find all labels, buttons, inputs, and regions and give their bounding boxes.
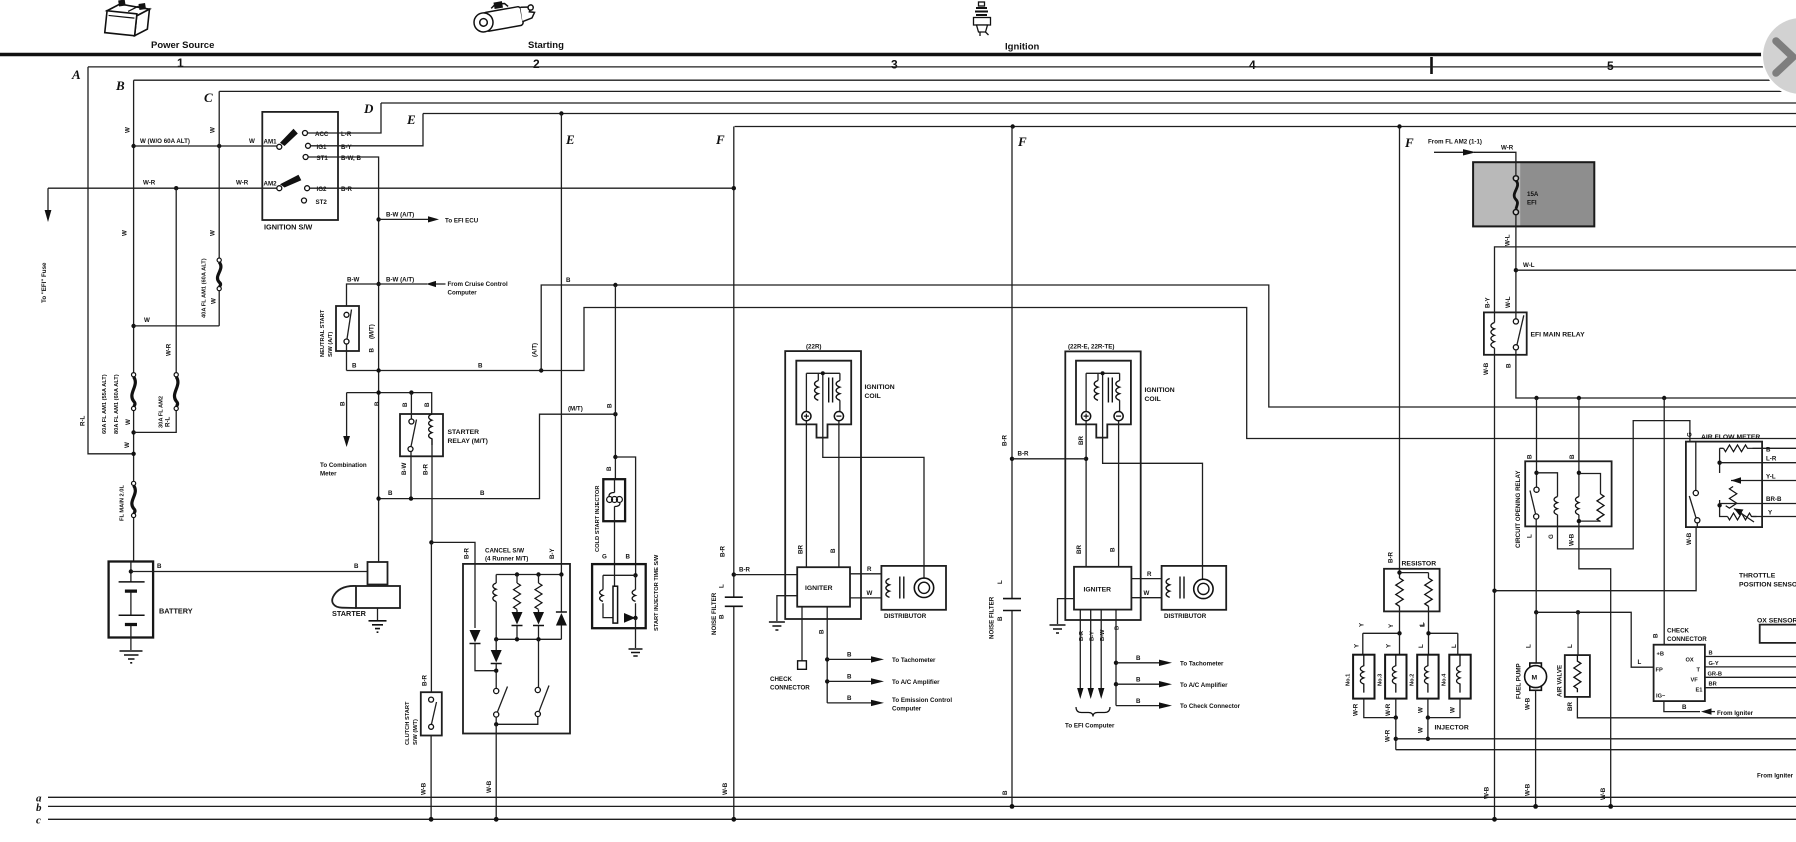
svg-text:R-L: R-L — [165, 416, 172, 427]
svg-text:5: 5 — [1607, 59, 1614, 73]
svg-text:D: D — [363, 101, 374, 116]
svg-text:L-R: L-R — [341, 131, 352, 138]
svg-text:(A/T): (A/T) — [532, 343, 539, 357]
svg-text:CHECK: CHECK — [770, 676, 793, 683]
svg-text:F: F — [1404, 135, 1414, 150]
svg-text:G: G — [1687, 432, 1694, 437]
svg-text:STARTER: STARTER — [332, 609, 367, 618]
svg-text:No.1: No.1 — [1346, 674, 1352, 686]
svg-text:W-B: W-B — [1686, 532, 1693, 545]
svg-text:IG−: IG− — [1656, 694, 1666, 700]
svg-text:BR: BR — [1567, 702, 1574, 711]
svg-text:To Emission Control: To Emission Control — [892, 697, 952, 704]
svg-text:NOISE FILTER: NOISE FILTER — [711, 592, 718, 635]
svg-text:W-R: W-R — [1501, 145, 1514, 152]
svg-text:B: B — [1110, 547, 1117, 552]
svg-text:From FL AM2 (1-1): From FL AM2 (1-1) — [1428, 139, 1482, 146]
svg-text:W: W — [125, 127, 132, 133]
svg-text:B-R: B-R — [739, 567, 751, 574]
svg-text:R-L: R-L — [80, 415, 87, 426]
svg-text:3: 3 — [891, 58, 898, 72]
svg-text:B-W: B-W — [401, 462, 408, 475]
svg-text:W-B: W-B — [421, 782, 428, 795]
svg-text:4: 4 — [1249, 58, 1256, 72]
svg-text:VF: VF — [1691, 678, 1699, 684]
svg-text:B: B — [607, 403, 614, 408]
svg-text:W: W — [210, 127, 217, 133]
svg-text:W: W — [1450, 707, 1457, 713]
svg-text:W: W — [122, 230, 129, 236]
svg-text:L: L — [1527, 534, 1534, 538]
svg-text:B: B — [1653, 633, 1660, 638]
svg-text:B: B — [369, 348, 376, 353]
svg-text:L: L — [719, 584, 726, 588]
svg-text:L: L — [997, 580, 1004, 584]
svg-text:b: b — [36, 802, 42, 814]
svg-text:ST2: ST2 — [316, 199, 328, 206]
svg-text:B: B — [340, 401, 347, 406]
svg-text:B: B — [424, 402, 431, 407]
svg-text:STARTER: STARTER — [448, 429, 480, 436]
svg-text:L: L — [1420, 623, 1427, 627]
svg-text:To Combination: To Combination — [320, 462, 367, 469]
svg-text:To A/C Amplifier: To A/C Amplifier — [892, 679, 940, 686]
svg-text:B: B — [1766, 446, 1771, 453]
svg-text:(M/T): (M/T) — [568, 406, 583, 413]
svg-text:B: B — [819, 629, 826, 634]
svg-text:W: W — [1144, 590, 1150, 597]
svg-text:W-B: W-B — [1600, 787, 1607, 800]
svg-text:To Tachometer: To Tachometer — [892, 657, 936, 664]
svg-text:W: W — [1418, 727, 1425, 733]
svg-text:Power Source: Power Source — [151, 40, 214, 51]
svg-text:IG1: IG1 — [317, 144, 328, 151]
svg-text:START INJECTOR TIME S/W: START INJECTOR TIME S/W — [654, 554, 660, 631]
svg-text:CONNECTOR: CONNECTOR — [1667, 636, 1707, 643]
svg-text:B-R: B-R — [1388, 551, 1395, 563]
svg-text:A: A — [71, 67, 81, 82]
svg-text:B-W: B-W — [1100, 629, 1106, 641]
svg-text:RELAY (M/T): RELAY (M/T) — [448, 438, 488, 445]
svg-text:B: B — [847, 674, 852, 681]
svg-text:B: B — [157, 563, 162, 570]
svg-text:IGNITION S/W: IGNITION S/W — [264, 223, 312, 232]
svg-text:40A FL AM1 (60A ALT): 40A FL AM1 (60A ALT) — [202, 258, 208, 318]
svg-text:W-B: W-B — [1525, 783, 1532, 796]
svg-text:INJECTOR: INJECTOR — [1435, 725, 1469, 732]
svg-text:B-R: B-R — [1079, 631, 1085, 641]
svg-text:G-Y: G-Y — [1709, 661, 1719, 667]
svg-text:(4 Runner M/T): (4 Runner M/T) — [485, 556, 528, 563]
svg-text:No.4: No.4 — [1442, 673, 1448, 686]
svg-text:G: G — [602, 554, 607, 561]
svg-text:COLD START INJECTOR: COLD START INJECTOR — [595, 486, 601, 552]
svg-text:EFI: EFI — [1527, 200, 1537, 207]
svg-text:L: L — [1418, 644, 1425, 648]
svg-text:W-B: W-B — [486, 780, 493, 793]
svg-text:AM1: AM1 — [264, 139, 278, 146]
svg-text:E1: E1 — [1696, 688, 1703, 694]
svg-text:S/W (A/T): S/W (A/T) — [328, 332, 334, 357]
svg-text:B-R: B-R — [423, 463, 430, 475]
svg-text:W-B: W-B — [1484, 786, 1491, 799]
svg-text:2: 2 — [533, 57, 540, 71]
svg-text:DISTRIBUTOR: DISTRIBUTOR — [1164, 613, 1207, 620]
svg-text:B: B — [1136, 676, 1141, 683]
svg-text:CONNECTOR: CONNECTOR — [770, 685, 810, 692]
svg-text:80A FL AM1 (60A ALT): 80A FL AM1 (60A ALT) — [114, 374, 120, 434]
svg-text:Starting: Starting — [528, 40, 564, 51]
svg-text:B-Y: B-Y — [341, 144, 353, 151]
svg-text:C: C — [204, 90, 213, 105]
svg-text:From Igniter: From Igniter — [1717, 710, 1754, 717]
svg-text:W-L: W-L — [1505, 234, 1512, 246]
svg-text:B: B — [402, 402, 409, 407]
svg-text:No.2: No.2 — [1410, 674, 1416, 686]
svg-text:1: 1 — [177, 56, 184, 70]
svg-text:NEUTRAL START: NEUTRAL START — [320, 309, 326, 357]
svg-text:B-Y: B-Y — [1089, 631, 1095, 641]
svg-text:POSITION SENSOR: POSITION SENSOR — [1739, 582, 1796, 589]
svg-text:ACC: ACC — [315, 131, 329, 138]
svg-text:B-R: B-R — [720, 545, 727, 557]
svg-text:W-R: W-R — [1353, 703, 1360, 716]
svg-text:Computer: Computer — [892, 706, 922, 713]
svg-text:AM2: AM2 — [264, 181, 278, 188]
svg-text:To EFI ECU: To EFI ECU — [445, 218, 479, 225]
svg-text:Computer: Computer — [448, 290, 478, 297]
svg-text:IGNITION: IGNITION — [1145, 387, 1175, 394]
svg-text:B: B — [719, 614, 726, 619]
svg-text:B-R: B-R — [464, 547, 471, 559]
svg-text:B: B — [1569, 454, 1576, 459]
svg-text:COIL: COIL — [1145, 396, 1161, 403]
svg-text:OX: OX — [1686, 658, 1694, 664]
svg-text:To Check Connector: To Check Connector — [1180, 703, 1241, 710]
svg-text:From Igniter: From Igniter — [1757, 773, 1794, 780]
svg-text:M: M — [1532, 675, 1538, 682]
svg-text:B: B — [830, 548, 837, 553]
svg-text:B: B — [1527, 454, 1534, 459]
svg-text:c: c — [36, 815, 41, 827]
svg-text:S/W (M/T): S/W (M/T) — [413, 719, 419, 745]
svg-text:BR-B: BR-B — [1766, 496, 1782, 503]
svg-text:IGNITER: IGNITER — [1084, 587, 1112, 594]
svg-text:IGNITION: IGNITION — [865, 384, 895, 391]
svg-text:BR: BR — [798, 545, 805, 554]
svg-text:L-R: L-R — [1766, 455, 1777, 462]
svg-text:CLUTCH START: CLUTCH START — [405, 701, 411, 745]
svg-text:W-R: W-R — [166, 343, 173, 356]
svg-text:FUEL PUMP: FUEL PUMP — [1516, 663, 1523, 699]
svg-text:W-L: W-L — [1505, 296, 1512, 308]
svg-text:W: W — [1417, 707, 1424, 713]
svg-text:W-R: W-R — [236, 180, 249, 187]
svg-text:B-R: B-R — [1002, 434, 1009, 446]
svg-text:B: B — [566, 277, 571, 284]
svg-text:B: B — [354, 563, 359, 570]
svg-text:E: E — [565, 132, 575, 147]
svg-text:BR: BR — [1709, 682, 1717, 688]
svg-text:F: F — [1017, 134, 1027, 149]
svg-text:B: B — [388, 490, 393, 497]
svg-text:F: F — [715, 132, 725, 147]
svg-text:B-Y: B-Y — [549, 547, 556, 559]
svg-text:B: B — [1682, 704, 1687, 711]
svg-text:BR: BR — [1078, 436, 1085, 445]
svg-text:B: B — [352, 363, 357, 370]
svg-text:B: B — [847, 652, 852, 659]
svg-text:B: B — [1136, 655, 1141, 662]
svg-text:GR-B: GR-B — [1708, 671, 1723, 677]
svg-text:RESISTOR: RESISTOR — [1402, 561, 1437, 568]
svg-text:B-W, B: B-W, B — [341, 155, 361, 162]
svg-text:+B: +B — [1657, 652, 1664, 658]
svg-text:B: B — [1002, 790, 1009, 795]
svg-text:No.3: No.3 — [1378, 674, 1384, 686]
svg-text:(M/T): (M/T) — [369, 324, 376, 339]
svg-text:15A: 15A — [1527, 191, 1539, 198]
svg-text:B: B — [1709, 651, 1713, 657]
svg-text:EFI MAIN RELAY: EFI MAIN RELAY — [1531, 332, 1586, 339]
svg-text:B-W (A/T): B-W (A/T) — [386, 212, 414, 219]
svg-text:W (W/O 60A ALT): W (W/O 60A ALT) — [140, 138, 190, 145]
svg-text:W-R: W-R — [1385, 729, 1392, 742]
svg-text:W: W — [249, 138, 255, 145]
svg-text:FL MAIN 2.0L: FL MAIN 2.0L — [120, 485, 126, 521]
svg-text:Y-L: Y-L — [1766, 473, 1776, 480]
svg-text:W: W — [125, 419, 132, 425]
svg-text:B: B — [1506, 363, 1513, 368]
svg-text:G: G — [1548, 534, 1555, 539]
svg-text:B: B — [374, 401, 381, 406]
svg-text:W: W — [210, 230, 217, 236]
svg-text:CIRCUIT OPENING RELAY: CIRCUIT OPENING RELAY — [1515, 470, 1522, 548]
svg-text:THROTTLE: THROTTLE — [1739, 573, 1776, 580]
svg-text:From Cruise Control: From Cruise Control — [448, 281, 508, 288]
svg-text:B-W (A/T): B-W (A/T) — [386, 277, 414, 284]
svg-text:W-R: W-R — [1385, 703, 1392, 716]
svg-text:CHECK: CHECK — [1667, 628, 1690, 635]
svg-text:W-B: W-B — [1483, 362, 1490, 375]
svg-text:(22R-E, 22R-TE): (22R-E, 22R-TE) — [1068, 344, 1114, 351]
svg-text:E: E — [406, 112, 416, 127]
svg-text:B: B — [606, 466, 613, 471]
svg-text:L: L — [1638, 659, 1642, 666]
svg-text:W-B: W-B — [1525, 697, 1532, 710]
svg-text:W: W — [867, 590, 873, 597]
svg-text:B: B — [626, 554, 631, 561]
svg-text:OX SENSOR: OX SENSOR — [1757, 618, 1796, 625]
svg-text:(22R): (22R) — [806, 344, 821, 351]
svg-text:DISTRIBUTOR: DISTRIBUTOR — [884, 613, 927, 620]
svg-text:COIL: COIL — [865, 393, 881, 400]
svg-text:B-W: B-W — [347, 277, 360, 284]
svg-text:W-L: W-L — [1523, 262, 1535, 269]
svg-text:R: R — [1147, 571, 1152, 578]
svg-text:AIR VALVE: AIR VALVE — [1557, 665, 1564, 697]
svg-text:IG2: IG2 — [317, 186, 328, 193]
svg-text:To A/C Amplifier: To A/C Amplifier — [1180, 682, 1228, 689]
svg-text:IGNITER: IGNITER — [805, 585, 833, 592]
svg-text:B: B — [847, 695, 852, 702]
svg-text:To EFI Computer: To EFI Computer — [1065, 723, 1115, 730]
svg-text:ST1: ST1 — [317, 155, 329, 162]
svg-text:W: W — [124, 442, 131, 448]
svg-text:W-B: W-B — [722, 782, 729, 795]
svg-text:B-R: B-R — [341, 186, 353, 193]
svg-text:L: L — [1526, 644, 1533, 648]
svg-text:BR: BR — [1076, 545, 1083, 554]
svg-text:B: B — [478, 363, 483, 370]
svg-text:Ignition: Ignition — [1005, 42, 1039, 53]
svg-text:FP: FP — [1656, 668, 1663, 674]
svg-text:To "EFI" Fuse: To "EFI" Fuse — [41, 262, 48, 303]
svg-text:W: W — [144, 317, 150, 324]
svg-text:NOISE FILTER: NOISE FILTER — [989, 596, 996, 639]
svg-text:BATTERY: BATTERY — [159, 607, 193, 616]
svg-text:L: L — [1451, 644, 1458, 648]
svg-text:R: R — [867, 566, 872, 573]
svg-text:W-B: W-B — [1569, 533, 1576, 546]
svg-text:B: B — [1136, 698, 1141, 705]
svg-text:CANCEL S/W: CANCEL S/W — [485, 548, 524, 555]
svg-text:To Tachometer: To Tachometer — [1180, 660, 1224, 667]
svg-text:B-R: B-R — [422, 674, 429, 686]
svg-text:Meter: Meter — [320, 471, 337, 478]
svg-text:B: B — [115, 78, 125, 93]
svg-text:T: T — [1697, 668, 1701, 674]
svg-text:60A FL AM1 (55A ALT): 60A FL AM1 (55A ALT) — [102, 374, 108, 434]
svg-text:B: B — [997, 616, 1004, 621]
svg-text:AIR FLOW METER: AIR FLOW METER — [1701, 434, 1760, 441]
svg-text:B: B — [480, 490, 485, 497]
svg-text:W: W — [211, 298, 218, 304]
svg-text:L: L — [1567, 644, 1574, 648]
svg-text:B-R: B-R — [1018, 451, 1030, 458]
svg-text:B-Y: B-Y — [1485, 296, 1492, 308]
svg-text:W-R: W-R — [143, 180, 156, 187]
